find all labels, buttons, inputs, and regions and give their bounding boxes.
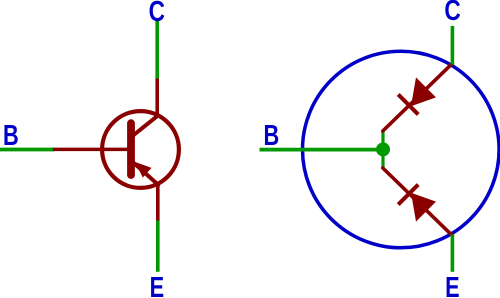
svg-text:C: C: [444, 0, 461, 27]
diode D2 cathode bar: [398, 185, 418, 205]
transistor Q1 emitter diagonal: [132, 161, 158, 185]
wire base dark red into transistor Q1: [53, 148, 131, 152]
transistor Q1 collector diagonal: [132, 116, 158, 137]
wire emitter green: [156, 221, 160, 272]
diode D1 cathode bar: [398, 94, 418, 114]
wire collector dark red: [155, 78, 159, 117]
diode D1 triangle: [411, 77, 436, 106]
node junction dot (base): [376, 142, 390, 156]
wire collector green (right): [451, 26, 455, 65]
wire base green (left diagram): [0, 148, 54, 152]
diode D2 anode lead (lower diagonal): [383, 168, 453, 236]
transistor Q1 emitter arrow (PNP, pointing toward base): [135, 162, 151, 178]
svg-text:B: B: [264, 120, 280, 152]
diode D1 anode lead (upper diagonal): [383, 63, 453, 131]
transistor Q1 base bar: [127, 123, 135, 175]
wire collector green: [155, 20, 159, 78]
svg-text:E: E: [150, 272, 165, 298]
diode D2 triangle: [411, 193, 436, 222]
model circle (blue) U1: [303, 51, 500, 248]
svg-text:B: B: [3, 120, 19, 152]
svg-text:C: C: [149, 0, 166, 28]
wire emitter dark red: [156, 184, 160, 222]
transistor Q1 circle: [102, 111, 179, 188]
svg-text:E: E: [445, 272, 460, 298]
wire base stubs green vertical: [381, 131, 384, 169]
wire base green (right diagram): [260, 148, 385, 152]
wire emitter green (right): [451, 235, 455, 272]
